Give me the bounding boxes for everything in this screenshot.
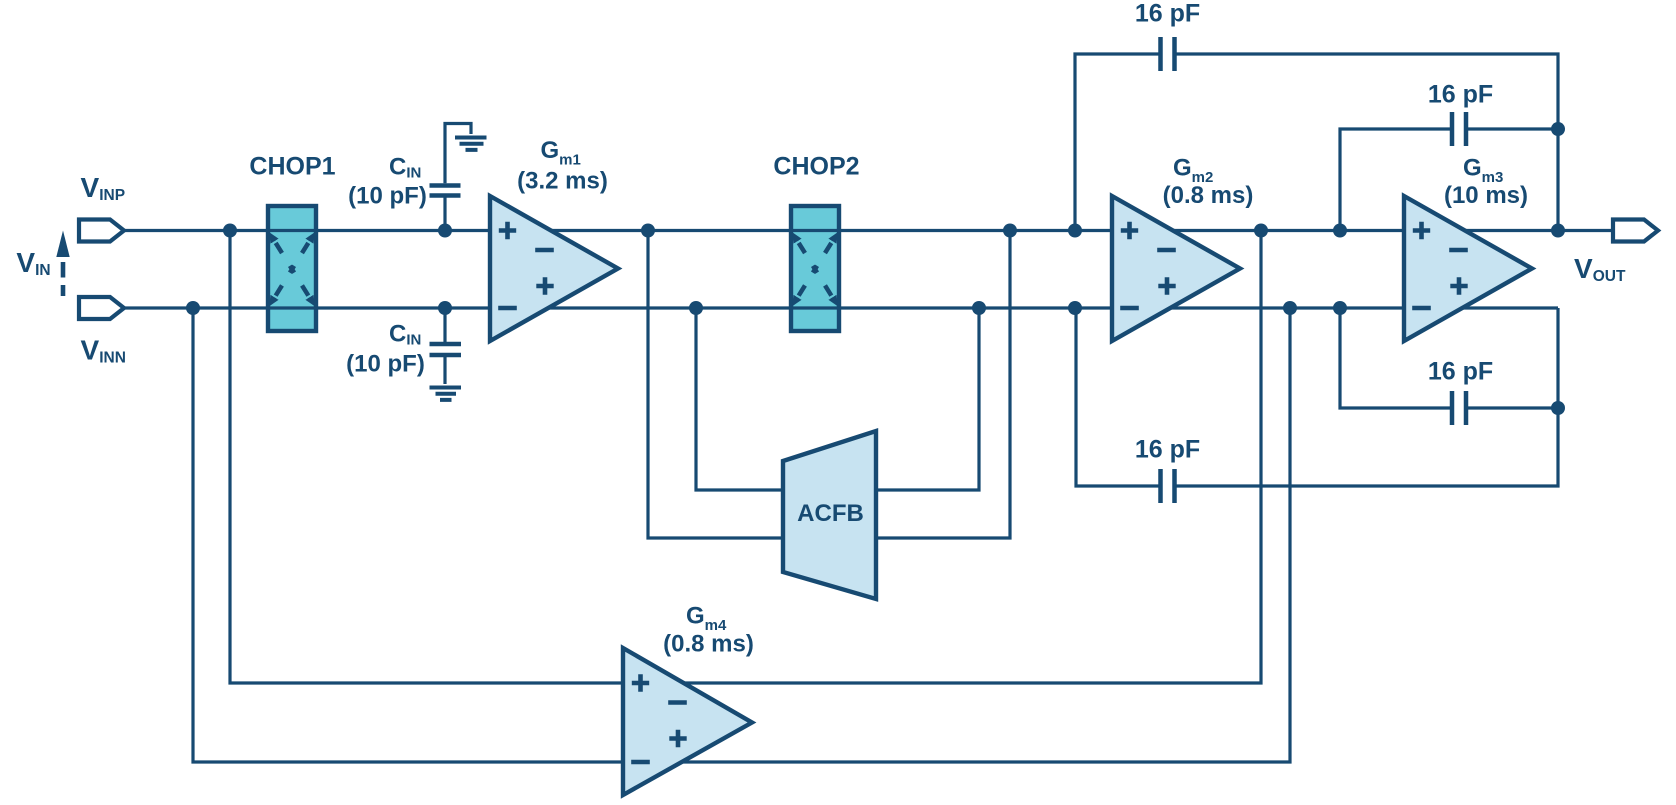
svg-text:(10 pF): (10 pF)	[346, 351, 425, 378]
svg-text:16 pF: 16 pF	[1135, 0, 1200, 28]
svg-text:16 pF: 16 pF	[1428, 81, 1493, 109]
svg-text:16 pF: 16 pF	[1428, 358, 1493, 386]
svg-text:VINN: VINN	[81, 335, 126, 367]
svg-text:(0.8 ms): (0.8 ms)	[1163, 182, 1254, 209]
svg-text:16 pF: 16 pF	[1135, 436, 1200, 464]
svg-text:CHOP2: CHOP2	[773, 153, 859, 181]
svg-text:(10 pF): (10 pF)	[348, 183, 427, 210]
svg-text:(0.8 ms): (0.8 ms)	[663, 631, 754, 658]
svg-text:CIN: CIN	[389, 154, 421, 182]
svg-text:CIN: CIN	[389, 321, 421, 349]
svg-text:(3.2 ms): (3.2 ms)	[517, 168, 608, 195]
svg-text:CHOP1: CHOP1	[249, 153, 335, 181]
svg-text:VOUT: VOUT	[1574, 253, 1626, 285]
svg-text:Gm4: Gm4	[686, 603, 727, 635]
svg-text:ACFB: ACFB	[797, 500, 864, 527]
svg-text:VINP: VINP	[81, 172, 126, 204]
svg-text:Gm1: Gm1	[541, 137, 581, 169]
svg-text:VIN: VIN	[16, 247, 50, 279]
svg-text:(10 ms): (10 ms)	[1444, 182, 1528, 209]
